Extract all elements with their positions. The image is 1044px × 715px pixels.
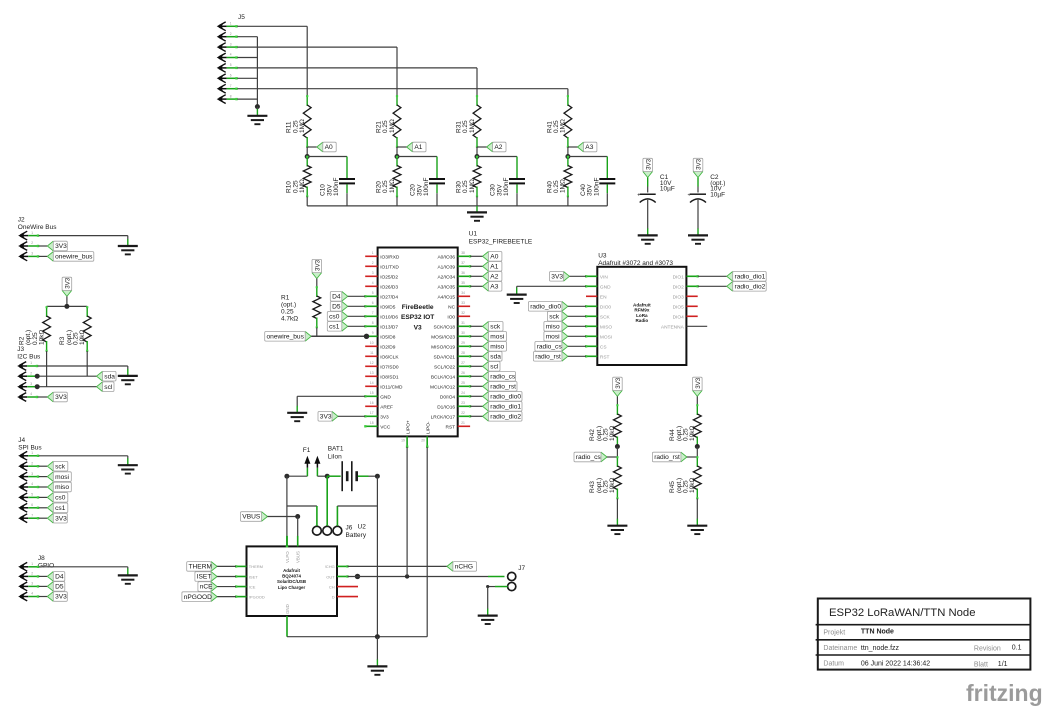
resistor R21 0.25 1M: [396, 96, 398, 106]
svg-text:2: 2: [31, 572, 33, 576]
connector J5 pin 8: [217, 96, 224, 103]
wire J6 pin1 branch: [287, 505, 317, 507]
svg-text:+: +: [637, 193, 640, 199]
svg-text:LIPO-: LIPO-: [425, 421, 431, 434]
wire J4 mosi: [39, 476, 48, 478]
svg-text:1MΩ: 1MΩ: [299, 119, 306, 133]
U3 pin SCK: [586, 315, 597, 317]
svg-text:A2/IO34: A2/IO34: [437, 274, 455, 280]
wire battery top rail left: [287, 475, 308, 477]
U1 pin 21 RST: [458, 425, 470, 427]
connector J8 pin 3: [18, 583, 25, 590]
junction U2 OUT: [355, 574, 360, 579]
svg-text:nPGOOD: nPGOOD: [184, 594, 212, 601]
svg-text:A0: A0: [490, 254, 498, 261]
svg-text:10µF: 10µF: [660, 186, 675, 193]
connector J5 pin 1: [217, 23, 224, 30]
svg-text:V3: V3: [414, 325, 422, 332]
svg-text:DIO5: DIO5: [673, 304, 685, 310]
svg-text:ESP32 LoRaWAN/TTN Node: ESP32 LoRaWAN/TTN Node: [829, 607, 976, 619]
net label A2: [487, 141, 493, 152]
svg-text:3V3: 3V3: [65, 277, 72, 289]
net label radio_dio1 U1 right: [483, 401, 489, 412]
U2 pin D: [337, 596, 358, 598]
svg-text:1: 1: [31, 562, 33, 566]
svg-text:100nF: 100nF: [423, 178, 430, 196]
net label 3V3 U3 VIN: [564, 271, 570, 282]
U1 pin 16 AREF: [365, 405, 377, 407]
ground GND rail: [476, 206, 478, 213]
svg-text:Datum: Datum: [823, 661, 844, 668]
svg-text:cs0: cs0: [55, 495, 66, 502]
net label sck J4: [47, 461, 53, 472]
svg-text:23: 23: [461, 401, 465, 405]
op-amp U1 ESP32_FIREBEETLE body: [378, 248, 458, 437]
svg-text:1MΩ: 1MΩ: [469, 119, 476, 133]
svg-text:A2: A2: [490, 274, 498, 281]
svg-text:11: 11: [370, 351, 374, 355]
wire node to C40: [568, 156, 607, 158]
ground GND J3: [118, 376, 138, 384]
wire node to C30: [477, 156, 517, 158]
ground GND U3: [507, 295, 527, 303]
svg-text:sck: sck: [55, 463, 66, 470]
svg-text:!CHG: !CHG: [325, 564, 335, 569]
svg-text:3V3: 3V3: [55, 243, 67, 250]
U3 pin GND: [586, 285, 597, 287]
wire node A0: [307, 146, 317, 148]
svg-text:3V3: 3V3: [380, 414, 389, 420]
resistor R42 (opt.) 0.25 10k: [616, 396, 618, 405]
ground GND C2: [688, 235, 708, 243]
svg-text:Adafruit: Adafruit: [633, 302, 651, 307]
resistor R10 0.25 1M: [306, 157, 308, 167]
svg-text:1MΩ: 1MΩ: [389, 119, 396, 133]
wire J6 pin2 branch: [326, 476, 328, 526]
svg-text:IO3/RXD: IO3/RXD: [380, 254, 400, 260]
svg-text:38: 38: [461, 251, 465, 255]
svg-text:miso: miso: [546, 324, 560, 331]
wire J4 sck: [39, 465, 48, 467]
svg-text:LIPO+: LIPO+: [405, 420, 411, 434]
svg-text:3V3: 3V3: [320, 414, 332, 421]
wire node A2: [477, 146, 487, 148]
wire U1 to A0: [470, 255, 482, 257]
svg-text:Revision: Revision: [974, 646, 1001, 653]
svg-text:2: 2: [31, 241, 33, 245]
svg-text:J5: J5: [238, 14, 245, 21]
U2 pin GND: [286, 616, 288, 624]
svg-text:IO5/D8: IO5/D8: [380, 334, 396, 340]
svg-text:36: 36: [461, 271, 465, 275]
U1 pin 37 A1/IO39: [458, 265, 470, 267]
svg-text:D0/IO4: D0/IO4: [440, 394, 456, 400]
U1 pin 19 LIPO+: [406, 436, 408, 447]
svg-text:5: 5: [31, 493, 33, 497]
net label sda: [97, 371, 103, 382]
svg-text:16: 16: [370, 401, 374, 405]
svg-text:10kΩ: 10kΩ: [609, 478, 616, 493]
U3 pin DIO1: [686, 275, 697, 277]
net label radio_rst U3: [562, 351, 568, 362]
svg-text:EN: EN: [600, 294, 607, 300]
svg-text:0.25: 0.25: [281, 309, 294, 316]
wire onewire_bus to U1 pin9: [311, 335, 365, 337]
svg-text:J6: J6: [346, 525, 353, 532]
svg-text:U1: U1: [469, 231, 478, 238]
wire U3 to radio_dio2: [698, 285, 727, 287]
svg-text:10kΩ: 10kΩ: [689, 478, 696, 493]
net label A2 U1 right: [483, 271, 489, 282]
wire J4 cs0: [39, 496, 48, 498]
svg-text:J3: J3: [17, 346, 24, 353]
net label D4 J8: [47, 571, 53, 582]
wire radio_rst tee: [696, 447, 698, 458]
svg-text:J7: J7: [518, 565, 525, 572]
svg-text:12: 12: [370, 361, 374, 365]
svg-text:D5: D5: [55, 584, 64, 591]
svg-text:6: 6: [230, 74, 232, 78]
U3 pin RST: [586, 355, 597, 357]
svg-text:ANTENNA: ANTENNA: [661, 324, 685, 330]
svg-text:D4: D4: [332, 294, 341, 301]
svg-text:TTN Node: TTN Node: [861, 629, 894, 636]
net label mosi U1 right: [483, 331, 489, 342]
connector J3 pin 3: [17, 383, 24, 390]
connector J4 pin 6: [18, 504, 25, 511]
svg-text:10kΩ: 10kΩ: [689, 426, 696, 441]
wire U1 to A3: [470, 285, 482, 287]
power flag 3V3 for R2 R3: [61, 290, 72, 296]
svg-text:3: 3: [30, 382, 32, 386]
connector J8 pin 1: [18, 563, 25, 570]
svg-text:ESP32_FIREBEETLE: ESP32_FIREBEETLE: [469, 239, 533, 246]
svg-text:fritzing: fritzing: [966, 680, 1043, 706]
U1 pin 2 IO1/TXD: [365, 265, 377, 267]
wire J5 pin1 to R11: [237, 25, 307, 27]
wire miso to U3: [568, 325, 586, 327]
net label 3V3 J3: [47, 391, 53, 402]
svg-text:Projekt: Projekt: [823, 630, 845, 637]
svg-text:3: 3: [31, 472, 33, 476]
svg-text:cs0: cs0: [329, 314, 340, 321]
wire U1 to radio_dio2: [470, 415, 482, 417]
svg-text:1MΩ: 1MΩ: [560, 179, 567, 193]
capacitor C10 35V 100nF: [346, 157, 348, 179]
U1 pin 36 A2/IO34: [458, 275, 470, 277]
U1 pin 34 A4/IO15: [458, 295, 470, 297]
svg-text:18: 18: [370, 421, 374, 425]
svg-text:100nF: 100nF: [333, 178, 340, 196]
connector J5 pin 4: [217, 54, 224, 61]
svg-text:ESP32 IOT: ESP32 IOT: [401, 314, 434, 321]
wire J3 pin2 sda: [38, 375, 97, 377]
svg-text:GND: GND: [380, 394, 391, 400]
net label radio_dio0 U3: [562, 301, 568, 312]
wire J6 pin3 branch: [336, 506, 338, 526]
svg-text:IO1/TXD: IO1/TXD: [380, 264, 399, 270]
svg-text:31: 31: [461, 321, 465, 325]
svg-text:sda: sda: [490, 354, 501, 361]
svg-text:5: 5: [372, 291, 374, 295]
svg-text:3: 3: [31, 252, 33, 256]
svg-text:22: 22: [461, 411, 465, 415]
junction battery minus: [375, 474, 380, 479]
svg-text:D: D: [332, 594, 335, 599]
resistor R40 0.25 1M: [567, 157, 569, 167]
net label 3V3 J8: [47, 591, 53, 602]
svg-text:Lipo Charger: Lipo Charger: [278, 585, 306, 590]
U2 pin VBUS: [297, 536, 299, 547]
svg-text:!PGOOD: !PGOOD: [249, 594, 265, 599]
junction J5 ground: [255, 104, 260, 109]
svg-text:DIO2: DIO2: [673, 284, 685, 290]
svg-text:Blatt: Blatt: [974, 662, 988, 669]
connector J3 pin 2: [17, 373, 24, 380]
svg-text:Battery: Battery: [346, 532, 367, 539]
resistor R20 0.25 1M: [396, 157, 398, 167]
svg-text:DIO0: DIO0: [600, 304, 612, 310]
svg-text:15: 15: [370, 391, 374, 395]
wire LIPO+ to OUT: [406, 447, 408, 577]
U3 pin EN: [586, 295, 597, 297]
svg-text:THERM: THERM: [249, 564, 263, 569]
svg-text:nCE: nCE: [200, 584, 213, 591]
svg-text:MOSI: MOSI: [600, 334, 612, 340]
U2 pin !PGOOD: [236, 596, 247, 598]
net label nCE: [211, 581, 217, 592]
svg-text:7: 7: [230, 84, 232, 88]
net label miso U1 right: [483, 341, 489, 352]
svg-text:J8: J8: [38, 555, 45, 562]
capacitor C40 35V 100nF: [606, 157, 608, 179]
wire J5 pin3 to R21: [237, 46, 397, 48]
wire node A1: [397, 146, 407, 148]
svg-text:VCC: VCC: [380, 424, 391, 430]
net label VBUS: [262, 511, 268, 522]
U1 pin 8 IO13/D7: [365, 325, 377, 327]
svg-text:IO2/D9: IO2/D9: [380, 344, 396, 350]
op-amp U3 Adafruit #3072 and #3073 body: [597, 267, 686, 365]
U1 pin 24 D0/IO4: [458, 395, 470, 397]
svg-text:20: 20: [421, 439, 425, 443]
svg-text:GND: GND: [600, 284, 611, 290]
wire U2 GND rail: [286, 624, 288, 637]
svg-text:3: 3: [31, 582, 33, 586]
resistor R30 0.25 1M: [476, 157, 478, 167]
junction LIPO+ OUT: [405, 574, 409, 578]
resistor R11 0.25 1M: [306, 96, 308, 106]
connector J4 pin 1: [18, 452, 25, 459]
svg-text:10kΩ: 10kΩ: [609, 426, 616, 441]
svg-text:cs1: cs1: [55, 505, 66, 512]
wire U3 to radio_dio1: [698, 275, 727, 277]
junction radio_rst: [695, 444, 700, 449]
svg-text:IO9/D5: IO9/D5: [380, 304, 396, 310]
svg-text:OUT: OUT: [326, 574, 335, 579]
ground GND J5: [256, 107, 258, 110]
net label A3: [578, 141, 584, 152]
U1 pin 17 3V3: [365, 415, 377, 417]
wire R1 to onewire_bus: [316, 328, 318, 337]
connector J2 pin 3: [18, 253, 25, 260]
net label miso U3: [562, 321, 568, 332]
svg-text:radio_rst: radio_rst: [654, 454, 680, 461]
svg-text:IO26/D3: IO26/D3: [380, 284, 398, 290]
svg-text:A0/IO36: A0/IO36: [437, 254, 455, 260]
svg-text:8: 8: [372, 321, 374, 325]
U2 pin VLPO: [286, 536, 288, 547]
svg-text:4: 4: [30, 392, 32, 396]
net label D5 U1: [342, 301, 348, 312]
svg-text:BAT1: BAT1: [328, 446, 344, 453]
connector J2 pin 2: [18, 242, 25, 249]
svg-text:VBUS: VBUS: [242, 514, 261, 521]
svg-text:27: 27: [461, 361, 465, 365]
U2 pin ISET: [236, 575, 247, 577]
ground GND J4: [118, 465, 138, 473]
svg-text:SCL/IO22: SCL/IO22: [434, 364, 455, 370]
net label radio_cs U1 right: [483, 371, 489, 382]
svg-text:1MΩ: 1MΩ: [389, 179, 396, 193]
ground GND U1: [287, 413, 307, 421]
svg-text:radio_dio0: radio_dio0: [530, 304, 561, 311]
net label radio_dio2 U1 right: [483, 411, 489, 422]
wire fuse to battery: [317, 475, 327, 477]
U3 pin MISO: [586, 325, 597, 327]
svg-text:ISET: ISET: [249, 574, 258, 579]
U1 pin 38 A0/IO36: [458, 255, 470, 257]
svg-text:DIO1: DIO1: [673, 274, 685, 280]
svg-text:IO7/SD0: IO7/SD0: [380, 364, 399, 370]
resistor R3 (opt.) 0.25 10k: [86, 305, 88, 308]
U1 pin 1 IO3/RXD: [365, 255, 377, 257]
svg-text:3V3: 3V3: [551, 274, 563, 281]
net label radio_cs U3: [562, 341, 568, 352]
svg-text:Radio: Radio: [635, 318, 648, 323]
svg-text:7: 7: [31, 513, 33, 517]
wire U2 !CHG to nCHG label: [348, 565, 447, 567]
wire D4 to U1: [348, 295, 365, 297]
svg-text:29: 29: [461, 341, 465, 345]
wire LIPO- to ground rail: [426, 447, 428, 637]
svg-text:A1: A1: [490, 264, 498, 271]
svg-text:DIO4: DIO4: [673, 314, 685, 320]
svg-text:4: 4: [372, 281, 374, 285]
svg-text:I2C Bus: I2C Bus: [17, 354, 41, 361]
ground GND J2: [118, 246, 138, 254]
U1 pin 32 IO0: [458, 315, 470, 317]
wire cs0 to U1: [348, 315, 365, 317]
connector J3 pin 1: [17, 362, 24, 369]
U3 pin MOSI: [586, 335, 597, 337]
svg-text:Adafruit #3072 and #3073: Adafruit #3072 and #3073: [598, 260, 673, 267]
wire sck to U3: [568, 315, 586, 317]
net label sck U3: [562, 311, 568, 322]
wire radio_rst to U3: [568, 355, 586, 357]
wire VBUS: [268, 516, 298, 518]
svg-text:IO27/D4: IO27/D4: [380, 294, 398, 300]
svg-text:A1/IO39: A1/IO39: [437, 264, 455, 270]
U1 pin 6 IO9/D5: [365, 305, 377, 307]
svg-text:D4: D4: [55, 574, 64, 581]
net label ISET: [211, 571, 217, 582]
wire nPGOOD to U2: [217, 596, 236, 598]
junction VBUS: [295, 514, 300, 519]
wire J8 3V3: [39, 596, 48, 598]
svg-text:1: 1: [30, 361, 32, 365]
junction node A0: [306, 147, 308, 157]
wire U1 GND pin15: [297, 395, 365, 397]
svg-text:onewire_bus: onewire_bus: [55, 254, 93, 261]
U1 pin 20 LIPO-: [426, 436, 428, 447]
resistor R45 (opt.) 0.25 10k: [696, 457, 698, 467]
svg-text:radio_rst: radio_rst: [490, 384, 516, 391]
svg-text:FireBeetle: FireBeetle: [402, 304, 434, 311]
U2 pin !CE: [236, 586, 247, 588]
svg-text:4: 4: [31, 592, 33, 596]
connector J5 pin 7: [217, 85, 224, 92]
svg-text:sda: sda: [104, 373, 115, 380]
wire J4 pin1 to ground: [39, 455, 128, 457]
svg-text:LoRa: LoRa: [636, 313, 648, 318]
wire U1 to A2: [470, 275, 482, 277]
svg-text:37: 37: [461, 261, 465, 265]
U1 pin 30 MOSI/IO23: [458, 335, 470, 337]
svg-text:34: 34: [461, 291, 465, 295]
U1 pin 12 IO7/SD0: [365, 365, 377, 367]
svg-text:mosi: mosi: [55, 474, 69, 481]
wire radio_rst label: [687, 456, 697, 458]
wire U3 GND to ground: [517, 285, 586, 287]
wire cs1 to U1: [348, 325, 365, 327]
svg-text:13: 13: [370, 371, 374, 375]
U2 pin CH: [337, 586, 358, 588]
U1 pin 18 VCC: [365, 425, 377, 427]
capacitor C1 polarized 10V 10uF: [647, 178, 649, 187]
svg-text:A1: A1: [414, 144, 422, 151]
wire radio_cs tee: [616, 447, 618, 458]
U1 pin 14 IO11/CMD: [365, 385, 377, 387]
wire THERM to U2: [217, 565, 236, 567]
U1 pin 35 A3/IO35: [458, 285, 470, 287]
wire nCE to U2: [217, 586, 236, 588]
ground GND R45: [687, 526, 707, 534]
svg-text:35: 35: [461, 281, 465, 285]
svg-text:radio_dio1: radio_dio1: [490, 404, 521, 411]
svg-text:SCK: SCK: [600, 314, 611, 320]
connector J5 pin 5: [217, 64, 224, 71]
svg-text:25: 25: [461, 381, 465, 385]
svg-text:+: +: [688, 193, 691, 199]
junction ground rail: [375, 634, 380, 639]
svg-text:24: 24: [461, 391, 465, 395]
net label sck U1 right: [483, 321, 489, 332]
svg-text:Solar/DC/USB: Solar/DC/USB: [277, 579, 306, 584]
svg-text:IO11/CMD: IO11/CMD: [380, 384, 403, 390]
svg-text:radio_dio1: radio_dio1: [735, 274, 766, 281]
svg-text:mosi: mosi: [490, 334, 504, 341]
wire U1 to radio_rst: [470, 385, 482, 387]
svg-text:1: 1: [230, 22, 232, 26]
svg-text:3V3: 3V3: [696, 158, 703, 170]
net label mosi U3: [562, 331, 568, 342]
svg-text:10kΩ: 10kΩ: [39, 330, 46, 345]
svg-text:MCLK/IO12: MCLK/IO12: [430, 384, 455, 390]
svg-text:Adafruit: Adafruit: [283, 568, 300, 573]
net label radio_dio1 U3 right: [727, 271, 733, 282]
power flag 3V3 for C1: [642, 172, 653, 178]
